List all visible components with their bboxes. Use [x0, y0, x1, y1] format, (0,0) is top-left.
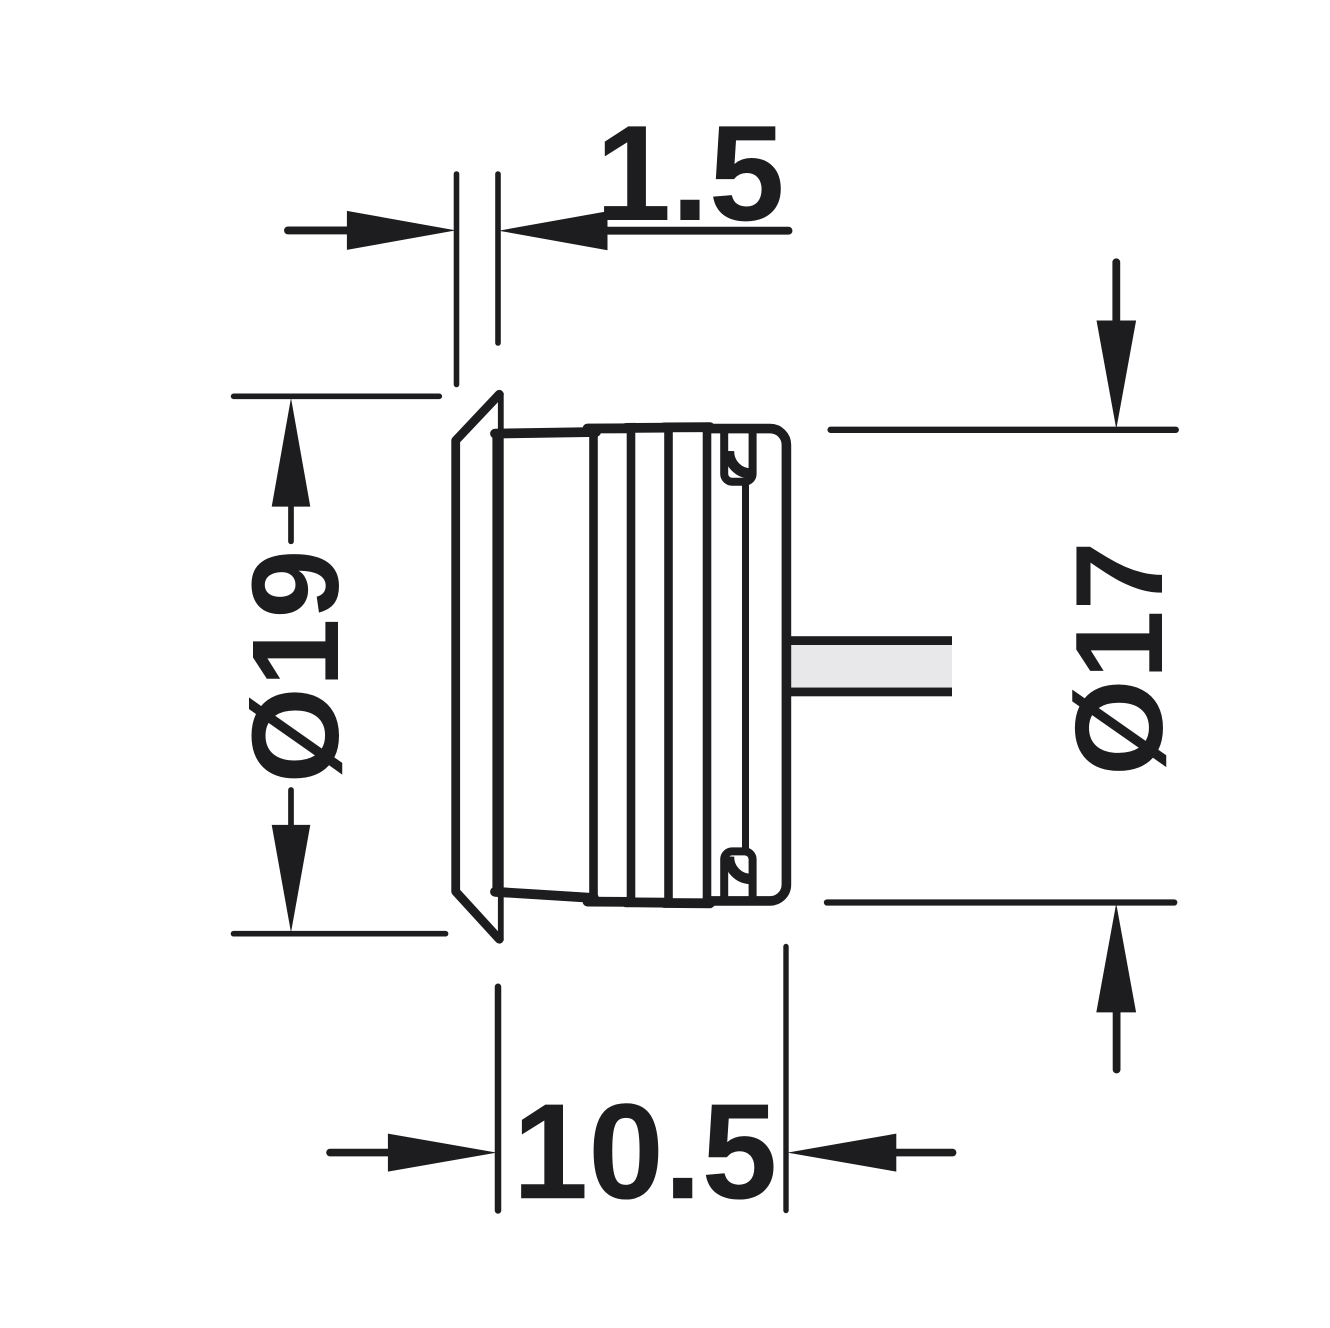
dimension 10.5: left arrowhead	[388, 1134, 497, 1172]
dimension Ø19: upper stub of dimension line	[288, 505, 294, 541]
dimension Ø19: lower stub of dimension line	[288, 790, 294, 826]
dimension 1.5: right arrowhead	[499, 211, 608, 250]
svg-text:Ø19: Ø19	[227, 550, 365, 784]
bottom retaining clip box	[724, 851, 752, 899]
barrel bottom edge segment 3	[626, 897, 668, 907]
barrel front-left edge (behind flange)	[492, 434, 498, 892]
thread rib 1	[589, 430, 598, 900]
dimension 10.5: right arrowhead	[788, 1134, 897, 1172]
svg-text:10.5: 10.5	[513, 1075, 778, 1227]
dimension Ø17: lower leader line	[1113, 1011, 1121, 1070]
dimension Ø17: bottom extension line	[827, 899, 1174, 905]
svg-text:1.5: 1.5	[596, 97, 785, 249]
bottom retaining clip spring arc	[729, 857, 751, 880]
barrel bottom edge segment 4	[664, 898, 710, 908]
dimension 1.5: left arrowhead	[347, 211, 456, 250]
dimension Ø19: bottom extension line	[234, 931, 446, 937]
top retaining clip box	[724, 429, 752, 482]
barrel top edge segment 1	[495, 432, 596, 434]
dimension 10.5: left extension line	[495, 987, 502, 1211]
rear cap inner edge (vertical line between clips)	[742, 482, 749, 851]
barrel top edge segment 3	[626, 423, 671, 433]
dimension 10.5: left leader line	[330, 1149, 389, 1157]
dimension Ø17: upper leader line	[1112, 262, 1120, 322]
barrel top edge segment 2	[588, 423, 634, 433]
svg-text:Ø17: Ø17	[1051, 541, 1189, 776]
top retaining clip spring arc	[729, 451, 751, 474]
dimension Ø17: bottom arrowhead (pointing up)	[1096, 904, 1136, 1013]
cable (gray lead-out wire at right)	[789, 636, 952, 696]
barrel top edge segment 4	[664, 422, 710, 432]
dimension 1.5: left leader line	[288, 226, 348, 234]
dimension 1.5: left extension line	[454, 174, 460, 385]
dimension 1.5: right leader line	[606, 227, 789, 235]
dimension 10.5: right extension line	[783, 947, 788, 1211]
flange right edge (front face line)	[498, 393, 504, 941]
dimension Ø17: top extension line	[831, 427, 1176, 433]
barrel bottom edge segment 1	[495, 892, 594, 898]
thread rib 2	[627, 428, 636, 902]
thread rib 3	[664, 428, 673, 903]
rear cap outline (top edge, right edge, bottom edge with rounded corners)	[704, 429, 786, 901]
dimension Ø19: top arrowhead	[272, 398, 311, 507]
dimension 1.5: right extension line	[495, 174, 501, 343]
dimension Ø19: top extension line	[234, 393, 440, 399]
flange left profile (chamfers and left edge)	[456, 394, 500, 939]
dimension Ø17: top arrowhead (pointing down)	[1097, 321, 1137, 430]
barrel bottom edge segment 2	[588, 897, 631, 907]
dimension Ø19: bottom arrowhead	[272, 825, 311, 933]
dimension 10.5: right leader line	[895, 1149, 953, 1157]
thread rib 4	[703, 427, 712, 903]
